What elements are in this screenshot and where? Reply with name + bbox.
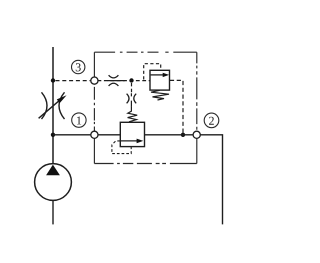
pilot hat over compensator [144,64,161,80]
wire: dashed pilot compensator outlet down to main line [170,80,183,134]
relief flow arrow [121,139,144,144]
wire: dashed pilot to port 3 [56,80,93,82]
variable throttle valve (adjustable restrictor) [39,92,67,119]
port node 1 [91,131,98,138]
compensator flow arrow [151,73,170,77]
enclosure (cartridge boundary, chain line) [94,52,196,163]
junction dot: pilot drain on main line [181,133,185,137]
wire: pump suction line [52,200,54,224]
port node 2 [193,131,200,138]
label 1 [72,113,86,127]
relief pilot loop (dashed) [112,141,131,154]
junction dot: throttle inlet / pilot tap [51,78,55,82]
fixed orifice (vertical) above spring [127,93,137,106]
compensator (reducing valve) body U1 [150,70,170,90]
pilot line: tee down to orifice [131,83,133,93]
fixed orifice on pilot line [107,75,124,86]
wire: main line pump to port 1 and relief inlet [53,134,120,136]
junction dot: pump node to port 1 [51,133,55,137]
label 3 [72,60,85,73]
relief spring [128,106,138,122]
port node 3 [91,77,98,84]
wire: pump outlet riser [52,47,54,164]
relief valve body V1 [120,122,144,146]
wire: dashed pilot from port 3 to compensator [98,80,151,82]
junction dot: pilot tee above relief spring [129,78,133,82]
wire: main line relief outlet to port 2 and external drop [145,135,223,225]
label 2 [204,113,219,128]
pump P1 [35,164,72,201]
compensator spring [151,90,169,100]
